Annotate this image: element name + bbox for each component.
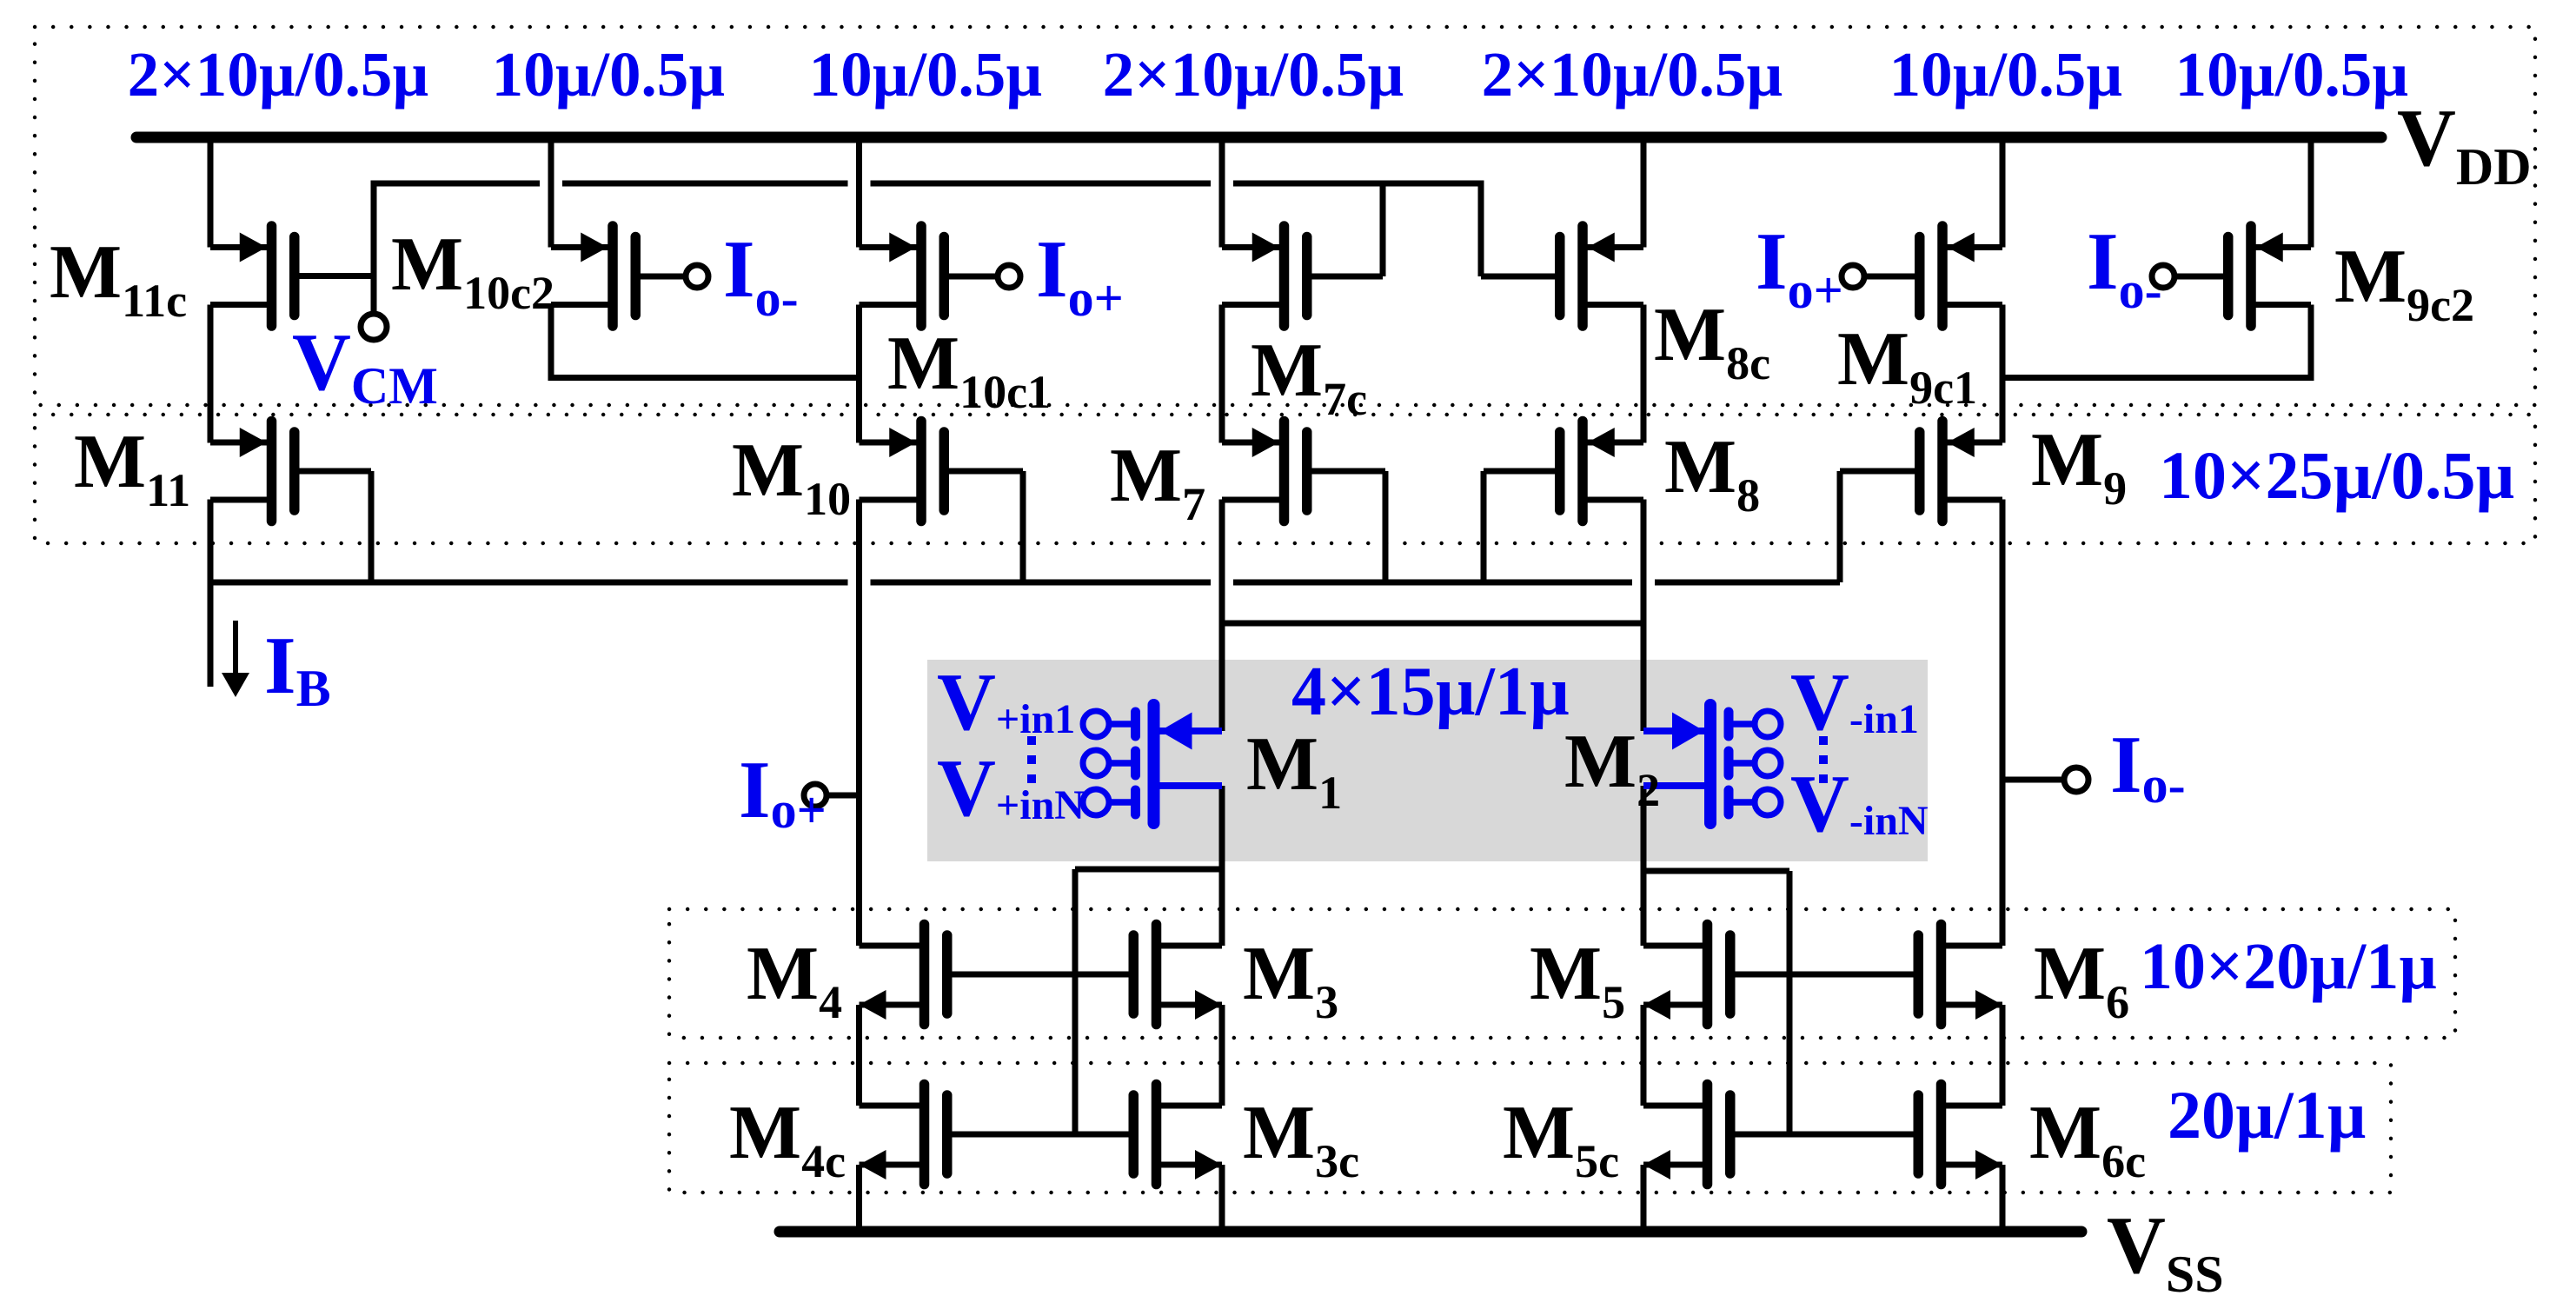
wire M9 drain to output column (Io-) — [2000, 500, 2006, 947]
wire M3 source to M3c drain — [1219, 1005, 1225, 1106]
wire M10c2 drain route down and right — [548, 305, 554, 382]
wire M7 drain to M1 source — [1219, 500, 1225, 732]
wire VDD drop to M7c source — [1219, 137, 1225, 248]
svg-text:10µ/0.5µ: 10µ/0.5µ — [1889, 39, 2123, 110]
svg-text:10µ/0.5µ: 10µ/0.5µ — [492, 39, 726, 110]
wire M6 source to M6c drain — [2000, 1005, 2006, 1106]
wire M8 gate tap — [1481, 471, 1487, 582]
wire M8c drain to M8 source — [1641, 305, 1647, 443]
wire M6c source to VSS — [2000, 1165, 2006, 1229]
wire M2 drain tee to NMOS gates right — [1643, 868, 1789, 874]
transistor M3c (NMOS cascode) — [1133, 1085, 1222, 1185]
transistor M11 (PMOS mirror) — [210, 422, 295, 522]
wire VCM vertical to terminal circle — [371, 181, 377, 315]
terminal Io+ top-left circle — [998, 265, 1020, 288]
transistor M4c (NMOS cascode) — [860, 1085, 947, 1185]
wire M5c source to VSS — [1641, 1165, 1647, 1229]
transistor M6 (NMOS) — [1918, 925, 2002, 1025]
net bias bus segment 1 (M11 drain diode) — [210, 580, 848, 586]
wire M7 gate lead — [1307, 468, 1385, 475]
node input-stage highlight box — [927, 660, 1928, 861]
svg-text:10µ/0.5µ: 10µ/0.5µ — [809, 39, 1043, 110]
wire M10c2 gate lead to Io- — [635, 274, 686, 280]
transistor M8 (PMOS mirror) — [1560, 422, 1643, 522]
transistor M2 (input pair, multiple gates) — [1643, 705, 1828, 823]
wire M1 drain tee to NMOS gates left — [1075, 867, 1222, 873]
wire M10 drain to output column (Io+) — [856, 500, 862, 947]
net VCM bus segment 2 — [562, 181, 848, 187]
wire M11 gate tap — [368, 471, 375, 582]
net tail bus M7/M8 drains — [1222, 621, 1643, 627]
wire M5c-M6c gate line — [1730, 1132, 1920, 1138]
svg-text:10×20µ/1µ: 10×20µ/1µ — [2140, 930, 2437, 1003]
transistor M6c (NMOS cascode) — [1918, 1085, 2002, 1185]
net bias bus segment 2 — [871, 580, 1212, 586]
wire VDD drop to M11c source — [208, 137, 214, 248]
svg-text:10µ/0.5µ: 10µ/0.5µ — [2175, 39, 2409, 110]
svg-text:2×10µ/0.5µ: 2×10µ/0.5µ — [1482, 39, 1783, 110]
wire M7c gate lead — [1307, 274, 1383, 280]
wire M7 gate tap — [1383, 471, 1389, 582]
net VCM bus segment 1 — [374, 181, 540, 187]
wire M9c1 gate lead to Io+ — [1864, 274, 1920, 280]
wire M8 gate lead — [1484, 468, 1560, 475]
svg-text:2×10µ/0.5µ: 2×10µ/0.5µ — [1103, 39, 1404, 110]
wire VDD drop to M8c source — [1641, 137, 1647, 248]
transistor M9 (PMOS mirror) — [1920, 422, 2002, 522]
wire M11 gate lead — [295, 468, 371, 475]
wire M10c1 drain to M10 source — [856, 305, 862, 443]
wire M9 gate lead — [1840, 468, 1920, 475]
wire M5 source to M5c drain — [1641, 1005, 1647, 1106]
wire M11c drain to M11 source — [208, 305, 214, 443]
wire M9c1 drain to M9 source — [2000, 305, 2006, 443]
svg-text:10×25µ/0.5µ: 10×25µ/0.5µ — [2159, 437, 2515, 513]
terminal Io- bottom tap — [2002, 777, 2064, 783]
node dotted box cascode row (top outer) — [35, 27, 2535, 405]
wire VDD drop to M10c2 source — [548, 137, 554, 248]
node dotted box NMOS row M4-M6 (10x20u/1u) — [669, 909, 2455, 1038]
power rail VSS — [780, 1226, 2081, 1238]
transistor M10c1 (PMOS cascode) — [860, 226, 945, 326]
net VCM bus segment 4 — [1233, 181, 1481, 187]
transistor M5 (NMOS) — [1643, 925, 1730, 1025]
terminal Io+ top-right circle — [1842, 265, 1864, 288]
wire M5-M6 gate line — [1730, 972, 1920, 978]
wire VDD drop to M9c1 source — [2000, 137, 2006, 248]
wire M10 gate tap — [1020, 471, 1026, 582]
transistor M5c (NMOS cascode) — [1643, 1085, 1730, 1185]
svg-text:4×15µ/1µ: 4×15µ/1µ — [1291, 654, 1570, 730]
wire M3c source to VSS — [1219, 1165, 1225, 1229]
terminal Io- top-right circle — [2152, 265, 2174, 288]
wire M4 source to M4c drain — [856, 1005, 862, 1106]
wire M4c-M3c gate line — [946, 1132, 1134, 1138]
transistor M1 (input pair, multiple gates) — [1027, 705, 1222, 823]
net bias bus segment 3 — [1233, 580, 1632, 586]
wire M1 drain to M3 drain — [1219, 786, 1225, 946]
wire M11 drain stub (IB input) — [208, 500, 214, 688]
transistor M4 (NMOS) — [860, 925, 947, 1025]
wire M9 gate tap — [1837, 471, 1843, 582]
wire M4-M3 gate line — [946, 972, 1134, 978]
wire M9c2 drain route down and left — [2308, 305, 2314, 382]
wire VDD drop to M9c2 source — [2308, 137, 2314, 248]
transistor M9c1 (PMOS cascode) — [1920, 226, 2002, 326]
svg-text:2×10µ/0.5µ: 2×10µ/0.5µ — [128, 39, 429, 110]
net VCM bus segment 3 — [871, 181, 1212, 187]
current arrow IB — [233, 621, 238, 675]
node dotted box NMOS cascode row M4c-M6c (20u/1u) — [669, 1063, 2391, 1193]
svg-text:20µ/1µ: 20µ/1µ — [2168, 1077, 2367, 1153]
power rail VDD — [136, 132, 2381, 143]
transistor M11c (PMOS cascode) — [210, 226, 295, 326]
transistor M7c (PMOS cascode) — [1222, 226, 1307, 326]
transistor M3 (NMOS) — [1133, 925, 1222, 1025]
wire M4c source to VSS — [856, 1165, 862, 1229]
wire M2 drain to M5 drain — [1641, 786, 1647, 946]
node dotted box mirror row M11-M9 (10x25u/0.5u) — [35, 415, 2535, 543]
wire M9c2 gate lead to Io- — [2174, 274, 2228, 280]
wire M11c gate lead to VCM — [295, 273, 374, 279]
transistor M9c2 (PMOS cascode) — [2228, 226, 2311, 326]
transistor M10c2 (PMOS cascode) — [551, 226, 635, 326]
wire M10c1 gate lead to Io+ — [944, 274, 998, 280]
net bias bus segment 4 — [1655, 580, 1840, 586]
transistor M8c (PMOS cascode) — [1560, 226, 1643, 326]
terminal Io+ bottom tap — [827, 793, 860, 799]
wire M10 gate lead — [944, 468, 1023, 475]
terminal VCM circle — [361, 314, 387, 340]
wire M8 drain to M2 source — [1641, 500, 1647, 732]
wire VCM bus corner down to M8c gate — [1478, 181, 1484, 277]
transistor M7 (PMOS mirror) — [1222, 422, 1307, 522]
wire M7c drain to M7 source — [1219, 305, 1225, 443]
wire VDD drop to M10c1 source — [856, 137, 862, 248]
terminal Io- top-left circle — [686, 265, 708, 288]
wire M7c gate tap from VCM bus — [1380, 183, 1386, 276]
transistor M10 (PMOS mirror) — [860, 422, 945, 522]
